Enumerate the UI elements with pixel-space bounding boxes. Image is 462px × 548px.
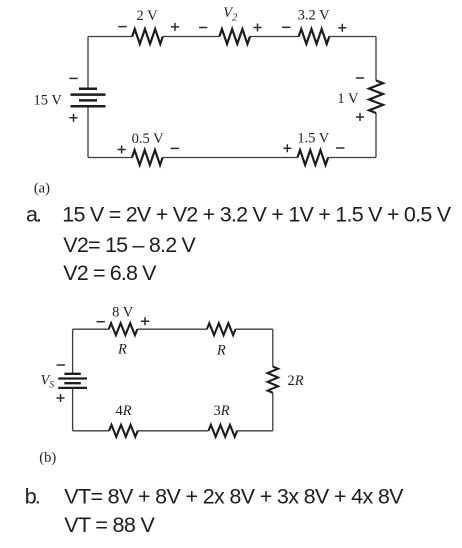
resistor 1.5 V (circuit a bottom-right) (298, 150, 329, 165)
label 4R (116, 403, 132, 419)
wire: circuit a bottom side (88, 157, 376, 159)
resistor 2 V (circuit a top-left) (132, 29, 163, 44)
polarity + battery b (57, 394, 65, 402)
battery 15 V source (circuit a) (71, 89, 106, 106)
resistor 3R (circuit b bottom-right) (209, 425, 238, 437)
battery Vs source (circuit b) (58, 374, 87, 388)
svg-text:15 V = 2V + V2 + 3.2 V + 1V +: 15 V = 2V + V2 + 3.2 V + 1V + 1.5 V + 0.… (62, 203, 451, 227)
svg-text:V2 = 6.8 V: V2 = 6.8 V (63, 261, 157, 285)
label 1.5 V (297, 131, 329, 147)
label 1 V (337, 91, 359, 107)
label 3R (214, 403, 230, 419)
resistor 2R (circuit b right side, vertical) (268, 367, 278, 393)
polarity - resistor V2 left (199, 27, 207, 29)
polarity - resistor 0.5V right (171, 147, 179, 149)
label 0.5 V (132, 131, 164, 147)
svg-text:15 V: 15 V (34, 93, 63, 109)
label V2 (223, 5, 238, 23)
svg-text:1 V: 1 V (337, 91, 359, 107)
solution text a (26, 203, 452, 285)
polarity - resistor 8V left (97, 321, 105, 323)
wire: circuit a left side (87, 37, 89, 158)
label 2R (288, 373, 304, 389)
solution text b (25, 485, 404, 538)
label R (circuit b top-left) (117, 342, 127, 358)
polarity + resistor 2V right (171, 23, 179, 31)
svg-text:3.2 V: 3.2 V (298, 8, 330, 24)
polarity + battery a (70, 114, 78, 122)
polarity + resistor 8V right (141, 317, 149, 325)
resistor R (circuit b top-right) (207, 323, 236, 335)
svg-text:V2= 15 – 8.2 V: V2= 15 – 8.2 V (63, 233, 196, 257)
svg-text:4R: 4R (116, 403, 132, 419)
label 2 V (136, 8, 158, 24)
polarity + resistor 1V bottom (356, 113, 364, 121)
polarity - battery b (57, 364, 65, 366)
svg-text:a.: a. (26, 203, 41, 227)
resistor R with 8 V drop (circuit b top-left) (109, 323, 138, 335)
resistor 3.2 V (circuit a top-right) (299, 29, 330, 44)
svg-text:VT= 8V + 8V + 2x 8V + 3x 8V +: VT= 8V + 8V + 2x 8V + 3x 8V + 4x 8V (64, 485, 404, 509)
svg-text:8 V: 8 V (112, 304, 134, 320)
resistor 4R (circuit b bottom-left) (109, 425, 138, 437)
svg-text:0.5 V: 0.5 V (132, 131, 164, 147)
wire: circuit b bottom side (73, 430, 273, 432)
svg-text:VS: VS (41, 373, 55, 391)
label (b) (39, 450, 56, 466)
polarity + resistor V2 right (254, 24, 262, 32)
polarity - battery a (69, 77, 77, 79)
svg-text:(b): (b) (39, 450, 56, 466)
wire: circuit b top side (73, 328, 273, 330)
resistor V2 (circuit a top-middle) (219, 29, 250, 44)
label (a) (34, 181, 50, 197)
svg-text:2 V: 2 V (136, 8, 158, 24)
label R (circuit b top-right) (216, 343, 226, 359)
svg-text:1.5 V: 1.5 V (297, 131, 329, 147)
svg-text:V2: V2 (223, 5, 238, 23)
polarity + resistor 3.2V right (338, 24, 346, 32)
wire: circuit a right side (375, 37, 377, 158)
svg-text:(a): (a) (34, 181, 50, 197)
polarity + resistor 0.5V left (118, 146, 126, 154)
svg-text:3R: 3R (214, 403, 230, 419)
label 15 V (34, 93, 63, 109)
wire: circuit b right side (272, 329, 274, 431)
polarity + resistor 1.5V left (283, 144, 291, 152)
polarity - resistor 1V top (356, 77, 364, 79)
svg-text:R: R (216, 343, 226, 359)
wire: circuit b left side (72, 329, 74, 431)
label 3.2 V (298, 8, 330, 24)
polarity - resistor 2V left (118, 26, 126, 28)
svg-text:R: R (117, 342, 127, 358)
polarity - resistor 3.2V left (282, 26, 290, 28)
wire: circuit a top side (88, 36, 376, 38)
label Vs (41, 373, 55, 391)
svg-text:2R: 2R (288, 373, 304, 389)
label 8 V (112, 304, 134, 320)
resistor 1 V (circuit a right side, vertical) (369, 81, 383, 114)
polarity - resistor 1.5V right (336, 147, 344, 149)
resistor 0.5 V (circuit a bottom-left) (132, 150, 163, 165)
svg-text:VT = 88 V: VT = 88 V (64, 513, 155, 537)
svg-text:b.: b. (25, 485, 40, 509)
